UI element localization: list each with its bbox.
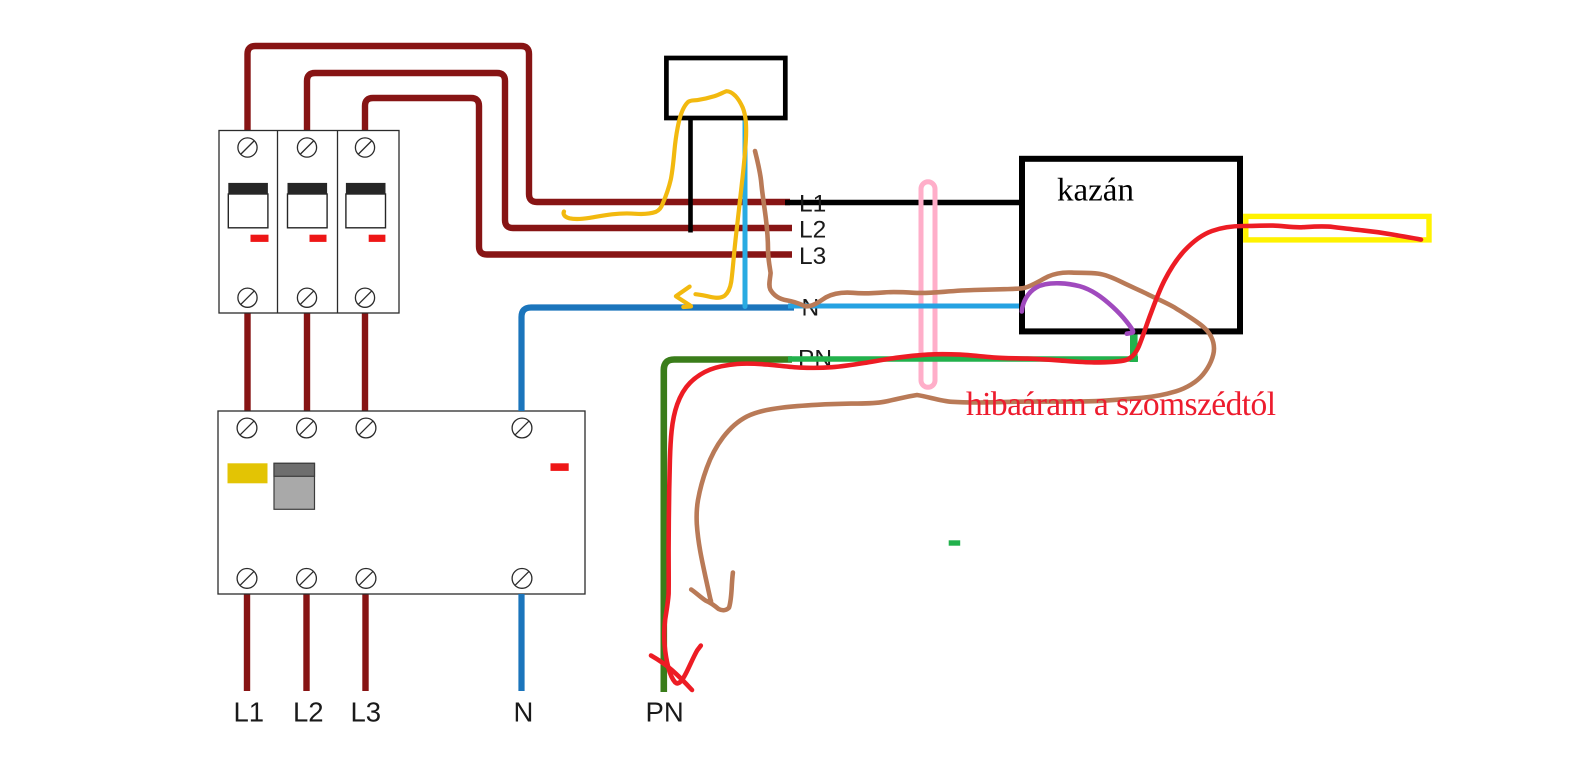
hand-drawn purple arc: [1022, 283, 1133, 333]
wire L2 breaker to RCD: [304, 313, 310, 411]
yellow arrow head: [676, 287, 690, 306]
svg-text:PN: PN: [646, 697, 684, 728]
hand-drawn red fault-current wire (long): [664, 226, 1421, 667]
black L1 line to kazan: [785, 200, 1022, 206]
RCD box: [218, 411, 585, 594]
breaker screw terminals top: [238, 138, 375, 157]
junction box (top): [666, 58, 785, 118]
svg-text:L1: L1: [799, 191, 826, 218]
breaker red indicator pole 3: [369, 235, 386, 242]
breaker toggle pole 1: [228, 183, 268, 228]
wire N below RCD: [518, 594, 524, 691]
RCD screw terminals bottom: [237, 569, 532, 589]
circuit breaker 3-pole box: [219, 131, 399, 314]
red scribble V at bottom: [668, 646, 701, 684]
svg-text:L2: L2: [293, 697, 324, 728]
breaker red indicator pole 2: [310, 235, 327, 242]
light blue drop from junction box to N: [743, 114, 748, 307]
RCD grey switch: [274, 463, 315, 509]
bright green vertical at kazan: [1130, 331, 1138, 362]
yellow outlet rectangle at right: [1246, 216, 1429, 240]
red scribble diagonal: [651, 656, 692, 691]
svg-text:L2: L2: [799, 217, 826, 244]
wire PN (dark green): [664, 360, 792, 693]
svg-text:L1: L1: [234, 697, 265, 728]
hand-drawn brown neutral wire (long): [697, 151, 1214, 601]
wire L1 feed (dark red from top of breaker pole 1 to L1 bus): [248, 46, 791, 202]
bright green PN overlay: [788, 356, 1138, 362]
svg-text:hibaáram a szomszédtól: hibaáram a szomszédtól: [966, 386, 1276, 423]
wire L1 breaker to RCD: [244, 313, 250, 411]
svg-text:L3: L3: [799, 243, 826, 270]
yellow arrow tail stub: [683, 304, 691, 309]
wire N horizontal (dark blue) and corner down to RCD: [522, 308, 795, 412]
light blue N overlay horizontal: [788, 304, 1022, 309]
breaker screw terminals bottom: [238, 288, 375, 307]
hand-drawn yellow loop wire: [564, 91, 747, 298]
brown hook swoosh: [691, 573, 733, 611]
wire L3 feed (dark red from top of breaker pole 3 to L3 bus): [365, 98, 792, 255]
breaker toggle pole 3: [346, 183, 386, 228]
kazan box: [1022, 159, 1240, 332]
svg-text:kazán: kazán: [1057, 173, 1134, 209]
wire L3 breaker to RCD: [362, 313, 368, 411]
pink CT ring: [921, 182, 935, 387]
breaker toggle pole 2: [288, 183, 328, 228]
small green dash: [949, 540, 961, 545]
wire L3 below RCD: [362, 594, 368, 691]
svg-text:N: N: [514, 697, 534, 728]
wire L1 below RCD: [244, 594, 250, 691]
wire L2 below RCD: [303, 594, 309, 691]
RCD screw terminals top: [237, 418, 532, 438]
svg-text:L3: L3: [351, 697, 382, 728]
wire L2 feed (dark red from top of breaker pole 2 to L2 bus): [307, 73, 792, 228]
RCD yellow test button: [228, 463, 268, 483]
breaker red indicator pole 1: [251, 235, 269, 242]
black tap wire from junction box to L2: [688, 117, 693, 233]
RCD red indicator: [551, 463, 569, 471]
